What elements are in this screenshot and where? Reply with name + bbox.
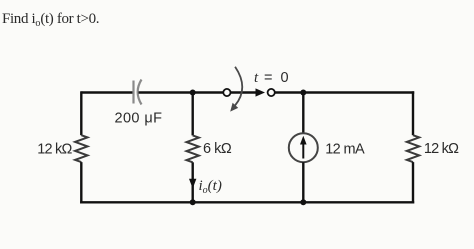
- wire: current source branch lower lead: [302, 162, 304, 202]
- wire: middle branch lower lead: [191, 162, 193, 202]
- wire: capacitor to switch pivot: [139, 91, 224, 93]
- switch blade with arrow: [231, 91, 258, 93]
- node: bottom of current source branch: [300, 199, 306, 205]
- resistor R 12k left zigzag: [75, 135, 87, 162]
- svg-text:12 kΩ: 12 kΩ: [424, 141, 459, 157]
- switch right contact circle: [268, 89, 275, 96]
- current source arrow: [302, 142, 304, 159]
- switch pivot contact circle: [223, 89, 230, 96]
- svg-text:io(t): io(t): [199, 178, 222, 196]
- wire: right branch upper lead: [412, 91, 414, 135]
- svg-text:Find io(t) for t>0.: Find io(t) for t>0.: [2, 11, 99, 29]
- resistor R 6k zigzag: [187, 135, 199, 162]
- wire: bottom rail: [80, 201, 414, 203]
- wire: left branch upper lead: [80, 91, 82, 135]
- svg-text:6 kΩ: 6 kΩ: [203, 141, 232, 157]
- node: top of current source branch: [300, 90, 306, 96]
- svg-text:200 μF: 200 μF: [115, 110, 163, 126]
- capacitor C 200uF left plate: [132, 81, 134, 104]
- current arrow io(t): [189, 179, 196, 189]
- wire: right branch lower lead: [412, 162, 414, 203]
- wire: current source branch upper lead: [302, 93, 304, 134]
- wire: top-left from corner to capacitor: [81, 91, 133, 93]
- switch opening arc arrow: [235, 67, 242, 106]
- svg-text:t=0: t=0: [254, 70, 289, 86]
- resistor R 12k right zigzag: [407, 135, 419, 162]
- wire: switch to top-right corner: [275, 91, 414, 93]
- wire: left branch lower lead: [80, 162, 82, 203]
- svg-text:12 mA: 12 mA: [325, 141, 365, 157]
- svg-text:12 kΩ: 12 kΩ: [37, 141, 72, 157]
- wire: middle branch upper lead: [191, 93, 193, 136]
- current source I1 12mA circle: [289, 133, 318, 162]
- node: top of 6k branch: [190, 90, 196, 96]
- node: bottom of 6k branch: [190, 199, 196, 205]
- capacitor C 200uF right curved plate: [138, 80, 142, 105]
